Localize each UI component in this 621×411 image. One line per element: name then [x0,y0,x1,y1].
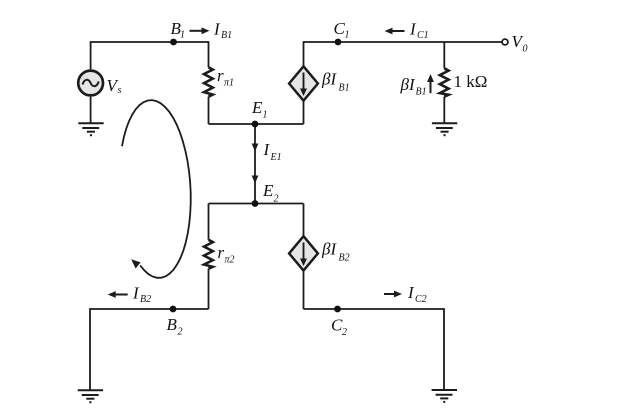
wire 1k resistor bottom to ground [443,97,445,124]
svg-text:1: 1 [263,110,268,121]
node C1 [335,39,342,46]
svg-text:βI: βI [400,75,416,94]
svg-text:I: I [409,20,417,39]
wire diamond U1 top [303,66,305,124]
svg-text:E: E [251,98,263,117]
wire diamond U2 bottom to C2 [303,271,305,309]
svg-text:B2: B2 [140,294,151,305]
svg-text:B: B [167,315,178,334]
wire E1 horizontal [209,123,304,125]
current arrow I_C2 [384,291,402,298]
current arrow I_B1 [190,27,210,34]
svg-text:2: 2 [342,327,347,338]
feedback loop curved arrow [122,100,191,278]
node C2 [334,306,341,313]
ground bottom-left B2 [78,390,103,402]
svg-text:I: I [213,19,221,38]
resistor R_pi2 [204,240,213,269]
ground below R1 1k [432,123,457,135]
svg-text:B1: B1 [416,87,427,98]
svg-text:π1: π1 [224,78,234,89]
wire Vs bottom to ground [90,97,92,124]
resistor R1 1k [440,68,449,96]
node E1 [252,121,259,128]
svg-text:0: 0 [523,44,528,55]
dependent source U2 diamond [289,236,318,270]
current arrow I_E1 second head [252,176,259,184]
node B1 [170,39,177,46]
svg-text:B2: B2 [339,253,350,264]
svg-text:r: r [218,243,225,262]
dependent source U1 diamond [289,66,318,100]
svg-text:r: r [217,66,224,85]
resistor R_pi1 [204,67,213,96]
current arrow I_B2 [108,291,128,298]
dependent source U1 arrow [300,73,307,97]
node E2 [252,200,259,207]
svg-text:1 kΩ: 1 kΩ [454,72,488,91]
wire E1 to E2 [254,124,256,204]
wire 1k resistor top [443,42,445,68]
svg-text:I: I [263,140,271,159]
wire top-right horizontal C1 to V0 [304,42,503,66]
svg-text:E: E [262,181,274,200]
svg-text:π2: π2 [225,255,235,266]
node B2 [170,306,177,313]
svg-text:I: I [407,283,415,302]
terminal V0 [502,39,508,45]
svg-text:1: 1 [180,30,185,41]
svg-text:βI: βI [321,70,337,89]
svg-text:βI: βI [321,239,337,258]
wire C2 horizontal to ground [304,309,445,390]
wire B2 horizontal [90,309,209,390]
svg-text:B1: B1 [339,82,350,93]
dependent source U2 arrow [300,243,307,267]
svg-text:B1: B1 [221,30,232,41]
wire top-left horizontal B1 [91,42,209,69]
svg-text:2: 2 [274,194,279,205]
current arrow I_E1 first head [252,144,259,152]
wire r_pi1 bottom to E1 [208,97,210,124]
svg-text:C1: C1 [417,30,429,41]
wire r_pi2 bottom to B2 [208,269,210,309]
svg-text:C2: C2 [415,294,427,305]
wire E2 to r_pi2 [208,204,210,240]
ground bottom-right C2 [432,390,457,402]
svg-text:I: I [132,283,140,302]
svg-text:s: s [118,85,122,96]
current arrow I_C1 [385,28,405,35]
svg-text:1: 1 [345,30,350,41]
ground below VS [78,123,103,135]
source VS tilde [83,80,99,86]
wire E2 horizontal [209,203,304,205]
wire E2 to diamond U2 [303,204,305,237]
source VS circle [78,71,103,96]
current arrow beta I_B1 up (R1) [427,74,434,93]
svg-text:2: 2 [178,327,183,338]
svg-text:E1: E1 [270,152,282,163]
